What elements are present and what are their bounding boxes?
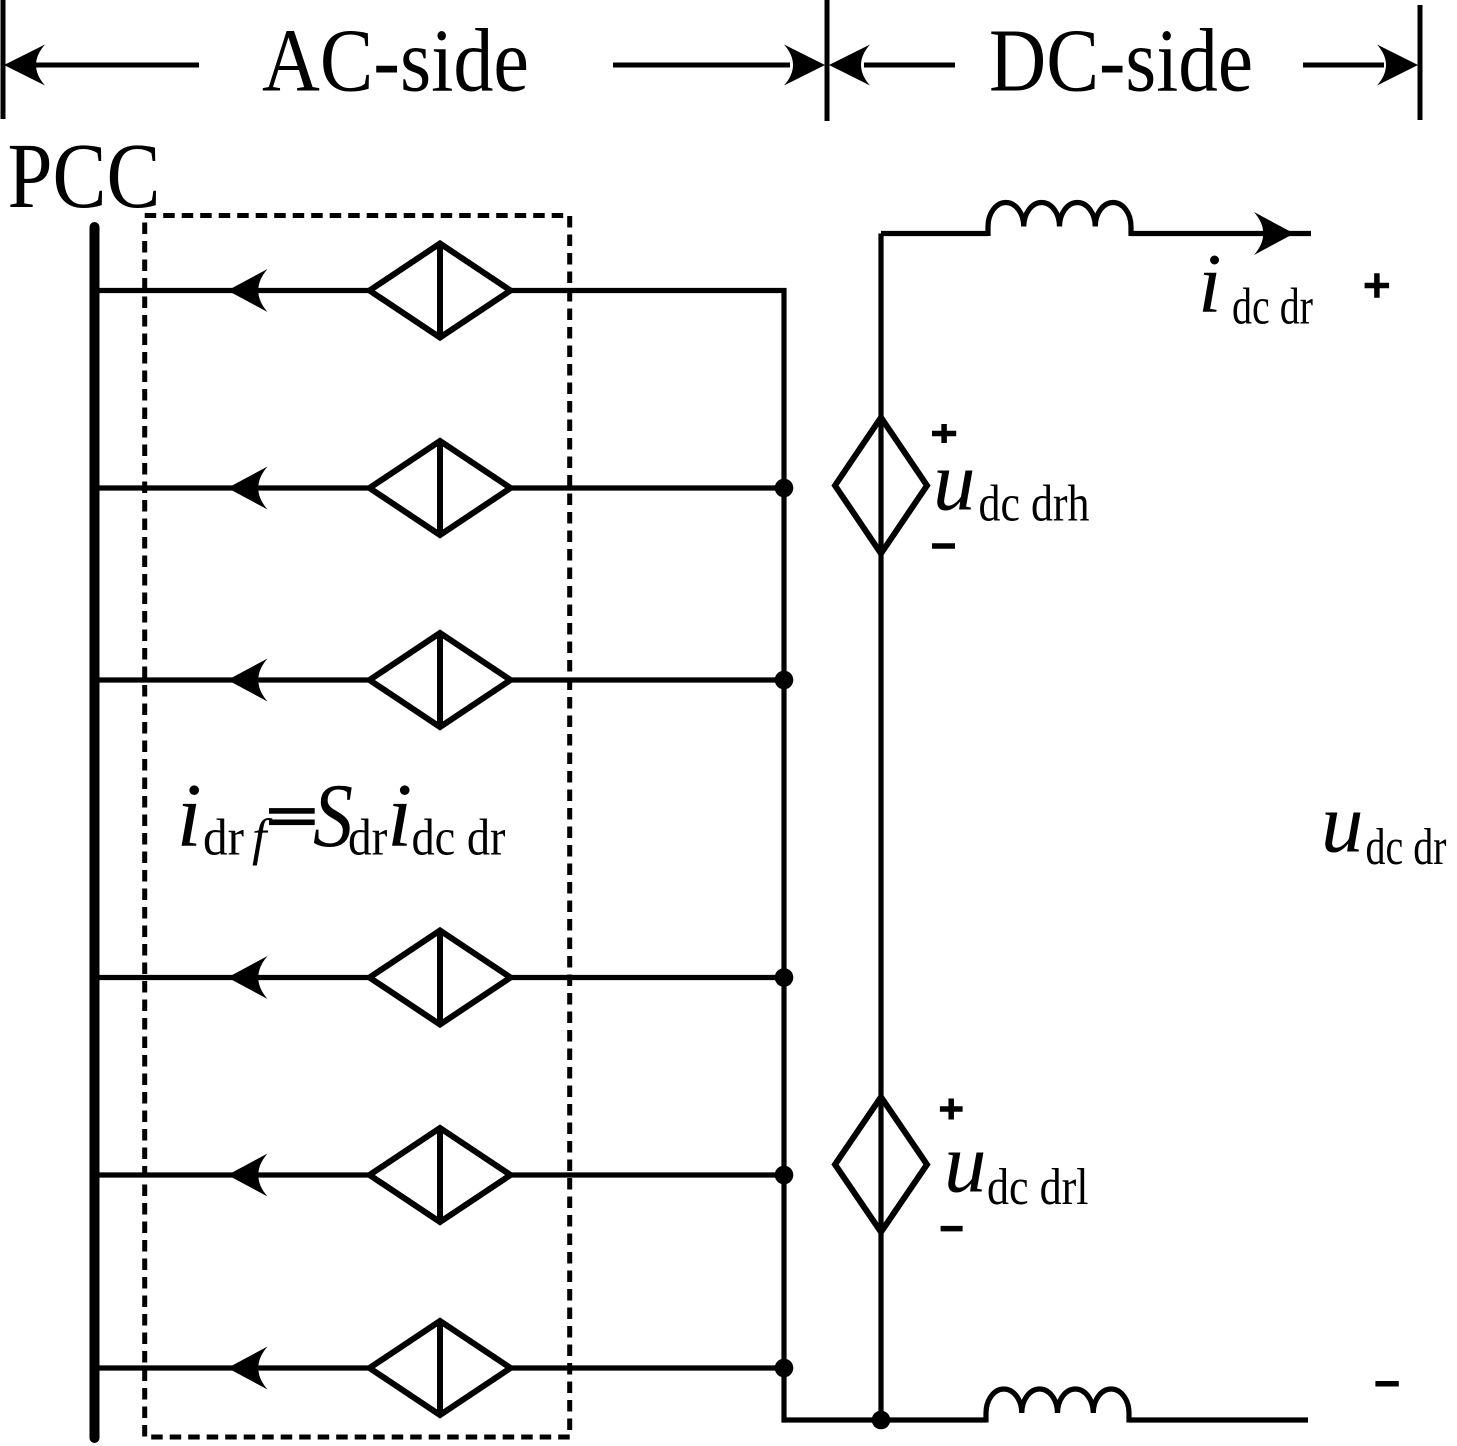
svg-text:PCC: PCC bbox=[8, 125, 161, 228]
svg-text:dc dr: dc dr bbox=[1366, 819, 1447, 876]
svg-text:dr: dr bbox=[348, 810, 387, 867]
svg-text:u: u bbox=[1321, 777, 1364, 871]
svg-text:AC-side: AC-side bbox=[262, 12, 529, 111]
svg-text:dr: dr bbox=[203, 810, 244, 867]
svg-text:DC-side: DC-side bbox=[989, 12, 1253, 111]
svg-text:dc dr: dc dr bbox=[412, 810, 506, 867]
svg-text:dc drl: dc drl bbox=[987, 1159, 1089, 1216]
svg-text:u: u bbox=[933, 435, 976, 529]
svg-text:S: S bbox=[313, 765, 353, 866]
svg-text:i: i bbox=[177, 765, 202, 866]
svg-text:dc drh: dc drh bbox=[979, 476, 1090, 533]
svg-text:i: i bbox=[1198, 237, 1222, 331]
svg-text:dc dr: dc dr bbox=[1232, 279, 1313, 336]
svg-text:u: u bbox=[944, 1117, 987, 1211]
svg-text:i: i bbox=[387, 765, 412, 866]
